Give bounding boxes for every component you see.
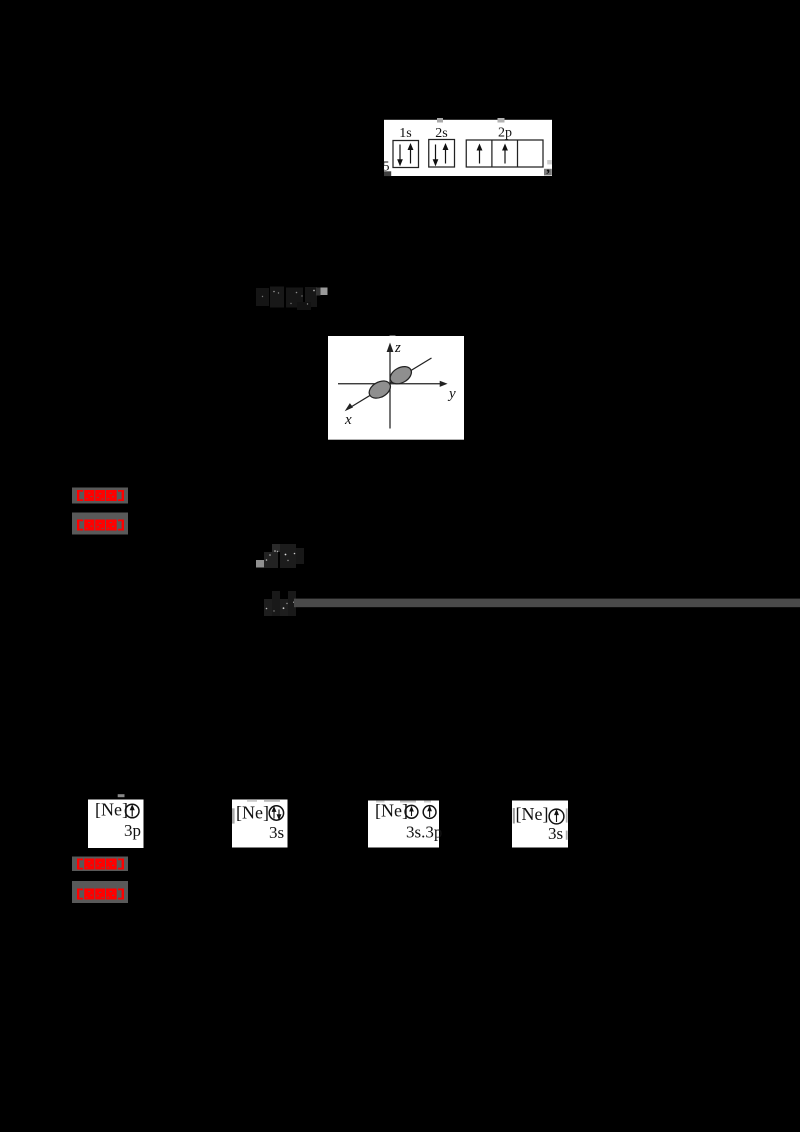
subscript gray square of formula 2 — [256, 560, 264, 568]
p orbital lobe upper-right — [387, 363, 414, 387]
2s down arrow — [433, 145, 437, 166]
answer label text 1 — [77, 490, 124, 501]
option B edge residue — [232, 808, 235, 823]
residue block bottom-left of image — [384, 171, 391, 176]
faint formula cluster 2 — [264, 544, 304, 568]
residual comma right of image — [547, 160, 552, 164]
option C circle 1 — [405, 805, 418, 818]
option C circle 1 small arrow — [410, 807, 413, 816]
orbital-diagram image background (1s 2s 2p) — [384, 120, 552, 176]
x axis diagonal — [346, 358, 432, 410]
option A arrow up — [130, 805, 134, 816]
option B image background — [232, 800, 288, 848]
residue smudge above 2s — [437, 118, 443, 123]
residue block bottom-right of image — [544, 169, 552, 176]
option C edge residue — [376, 801, 385, 803]
2p cell2 up arrow — [503, 145, 507, 164]
option D arrow up — [555, 810, 558, 822]
2s orbital box — [429, 140, 455, 168]
svg-text:,: , — [546, 160, 550, 176]
residue smudge above p-orbital image — [390, 335, 396, 338]
svg-text:[Ne]: [Ne] — [516, 804, 549, 824]
residue smudge above option A — [118, 794, 125, 797]
2p cell1 up arrow — [477, 145, 481, 164]
option D image background — [512, 801, 568, 848]
svg-text:[Ne]: [Ne] — [236, 803, 269, 823]
option A circle — [125, 804, 139, 818]
superscript gray square of formula 1 — [316, 288, 321, 296]
option C circle 2 arrow — [428, 807, 431, 817]
svg-text:z: z — [394, 340, 401, 356]
1s down arrow — [398, 145, 402, 166]
svg-text:3p: 3p — [124, 821, 141, 840]
gray underline bar — [294, 599, 800, 608]
answer label box 2 — [72, 857, 128, 872]
answer label text 2 — [77, 859, 124, 870]
p-orbital image background — [328, 336, 464, 440]
z axis — [387, 344, 392, 429]
faint formula cluster 3 — [264, 591, 296, 616]
analysis label box 1 — [72, 513, 128, 535]
option B arrow up — [272, 807, 275, 818]
option C circle 2 — [423, 806, 436, 819]
svg-text:[Ne]: [Ne] — [375, 801, 408, 821]
y axis — [338, 382, 446, 387]
svg-text:3s: 3s — [269, 823, 284, 842]
analysis label text 2 — [77, 889, 124, 900]
p orbital lobe lower-left — [366, 378, 393, 402]
answer label box 1 — [72, 488, 128, 504]
option C image background — [368, 801, 439, 848]
1s up arrow — [408, 144, 412, 163]
analysis label text 1 — [77, 520, 124, 531]
svg-text:2s: 2s — [435, 126, 447, 141]
1s orbital box — [393, 141, 419, 168]
svg-text:1s: 1s — [399, 126, 411, 141]
svg-text:3s: 3s — [548, 824, 563, 843]
option D edge residue — [513, 808, 515, 824]
svg-text:2p: 2p — [498, 126, 512, 141]
option D circle — [549, 809, 564, 824]
analysis label box 2 — [72, 881, 128, 903]
2p orbital triple box — [466, 140, 543, 167]
svg-text:[Ne]: [Ne] — [95, 800, 128, 820]
svg-text:y: y — [447, 386, 456, 402]
faint formula cluster 1 — [256, 287, 317, 311]
2s up arrow — [443, 144, 447, 163]
residue smudge above 2p — [498, 118, 505, 123]
option B arrow down — [277, 810, 280, 820]
svg-text:x: x — [344, 412, 352, 428]
option A image background — [88, 800, 144, 849]
svg-text:3s.3p: 3s.3p — [406, 823, 442, 842]
option B circle — [269, 806, 283, 820]
